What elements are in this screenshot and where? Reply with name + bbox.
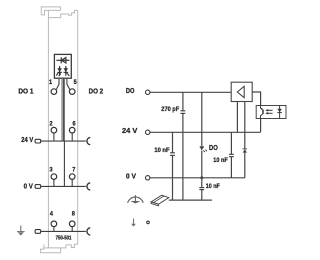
- svg-text:24 V: 24 V: [21, 135, 33, 144]
- svg-text:750-501: 750-501: [56, 236, 72, 242]
- svg-text:10 nF: 10 nF: [206, 183, 220, 190]
- svg-text:8: 8: [72, 211, 76, 218]
- svg-text:10 nF: 10 nF: [213, 157, 228, 164]
- svg-text:1: 1: [49, 79, 53, 86]
- svg-text:4: 4: [50, 211, 54, 218]
- svg-text:DO 1: DO 1: [18, 87, 33, 96]
- svg-text:0 V: 0 V: [24, 182, 33, 191]
- svg-text:3: 3: [49, 167, 53, 174]
- svg-text:2: 2: [49, 121, 53, 128]
- svg-text:DO 2: DO 2: [89, 87, 104, 96]
- svg-text:DO: DO: [209, 143, 218, 152]
- svg-text:6: 6: [72, 121, 76, 128]
- svg-text:5: 5: [74, 79, 78, 86]
- svg-text:0 V: 0 V: [126, 171, 136, 180]
- svg-text:DO: DO: [126, 86, 135, 95]
- svg-text:7: 7: [72, 167, 76, 174]
- svg-text:24 V: 24 V: [122, 126, 137, 135]
- svg-text:270 pF: 270 pF: [161, 106, 179, 113]
- svg-text:10 nF: 10 nF: [154, 147, 169, 154]
